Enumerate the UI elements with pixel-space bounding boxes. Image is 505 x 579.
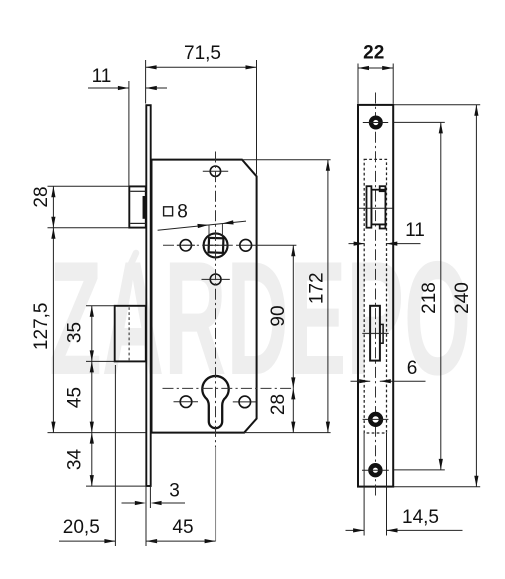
svg-text:45: 45	[172, 517, 193, 538]
bottom fixing screw hole	[362, 465, 389, 475]
dimension 35 deadbolt height	[64, 306, 114, 362]
cylinder left fixing hole	[174, 396, 199, 408]
svg-text:28: 28	[31, 186, 52, 207]
lock case outline	[152, 160, 257, 433]
svg-text:90: 90	[268, 305, 289, 326]
svg-text:11: 11	[92, 66, 112, 87]
latch bolt front view	[359, 186, 393, 228]
dimension 127,5	[31, 228, 55, 433]
deadbolt side view	[115, 306, 146, 362]
dimension 34 case bottom to plate end	[64, 433, 145, 487]
right follower hole	[240, 239, 252, 251]
dimension 218 screw distance	[394, 122, 445, 470]
cylinder centre line horizontal	[163, 387, 294, 389]
svg-text:218: 218	[419, 282, 440, 314]
vertical centre line left figure	[215, 152, 217, 542]
top fixing screw hole	[363, 118, 388, 128]
svg-text:6: 6	[407, 358, 418, 379]
square spindle hole 8mm	[209, 238, 224, 253]
svg-text:34: 34	[64, 449, 85, 471]
dimension 45 deadbolt to case bottom	[64, 361, 94, 432]
top screw hole	[203, 166, 228, 176]
left follower hole	[177, 240, 195, 251]
svg-text:22: 22	[363, 43, 384, 64]
svg-text:127,5: 127,5	[31, 303, 52, 351]
svg-text:14,5: 14,5	[402, 507, 439, 528]
svg-text:71,5: 71,5	[184, 43, 221, 64]
svg-text:28: 28	[268, 394, 289, 415]
lock case hidden outline	[364, 159, 386, 433]
svg-text:11: 11	[405, 220, 425, 241]
svg-text:8: 8	[177, 201, 188, 222]
dimension 11 latch projection	[88, 66, 167, 186]
deadbolt front view	[362, 306, 388, 361]
dimension 6 deadbolt width	[351, 358, 426, 384]
faceplate side view	[146, 105, 150, 486]
square 8 callout	[158, 201, 246, 237]
middle fixing screw hole	[363, 414, 389, 425]
euro cylinder hole	[202, 376, 228, 428]
case thickness extension lines	[364, 433, 386, 536]
middle hole	[202, 274, 230, 285]
watermark ZARDEPO	[49, 227, 471, 409]
vertical centre line right figure	[375, 93, 377, 497]
faceplate front view	[358, 105, 393, 487]
dimension 14,5 case thickness	[346, 507, 463, 532]
dimension 240 plate length	[394, 105, 480, 487]
spindle centre line horizontal	[163, 244, 296, 246]
latch bolt side view	[129, 186, 146, 227]
svg-text:172: 172	[307, 272, 328, 304]
svg-text:45: 45	[64, 387, 85, 408]
dimension 172 case height	[242, 160, 331, 433]
dimension 28 cylinder to case bottom	[268, 388, 295, 432]
dimension 45 backset	[146, 517, 216, 543]
svg-text:20,5: 20,5	[63, 517, 100, 538]
dimension 28 latch height	[31, 186, 129, 228]
dimension 11 latch width	[349, 220, 425, 246]
spindle follower circle	[204, 233, 228, 257]
case bottom extension line	[48, 432, 146, 434]
dimension 3 faceplate thickness	[122, 480, 186, 546]
cylinder right fixing hole	[233, 396, 256, 408]
svg-text:240: 240	[452, 282, 473, 314]
dimension 90 spindle to cylinder	[268, 245, 295, 388]
dimension 71,5	[146, 43, 257, 175]
dimension 20,5	[59, 365, 157, 546]
dimension 22 plate width	[358, 43, 393, 104]
svg-text:35: 35	[64, 322, 85, 343]
svg-text:3: 3	[169, 480, 180, 501]
